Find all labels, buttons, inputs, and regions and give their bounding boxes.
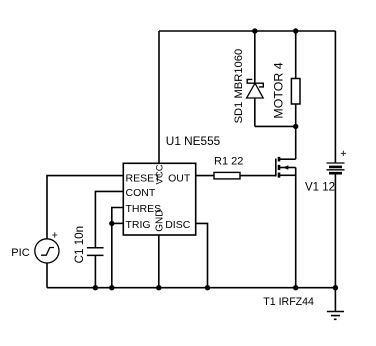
svg-text:SD1 MBR1060: SD1 MBR1060 [233, 49, 245, 124]
wire diode bottom link [255, 125, 296, 127]
wire disc down [196, 223, 208, 287]
svg-text:GND: GND [155, 210, 166, 232]
svg-text:VCC: VCC [155, 164, 166, 184]
junction rail disc [205, 285, 210, 290]
svg-text:MOTOR 4: MOTOR 4 [272, 62, 286, 118]
svg-text:TRIG: TRIG [126, 219, 151, 231]
op-amp U1 NE555 body [123, 163, 195, 235]
transistor T1 source lead [280, 174, 296, 176]
wire motor bottom [295, 104, 297, 126]
junction rail source [293, 285, 298, 290]
svg-text:PIC: PIC [11, 247, 29, 259]
capacitor C1 plates [87, 248, 104, 256]
wire thres down [112, 208, 124, 288]
wire battery bottom [334, 174, 336, 288]
transistor T1 channel bars [278, 157, 281, 178]
svg-text:T1 IRFZ44: T1 IRFZ44 [263, 296, 314, 308]
wire cont to cap [95, 191, 123, 247]
svg-text:DISC: DISC [165, 219, 191, 231]
wire R1 to gate [240, 175, 276, 177]
junction rail gnd [156, 285, 161, 290]
wire reset to source [47, 176, 123, 239]
transistor T1 body lead [280, 167, 296, 169]
wire battery top [334, 31, 336, 163]
wire top rail [159, 30, 335, 32]
wire out to R1 [196, 175, 214, 177]
diode SD1 schottky bar [247, 79, 263, 87]
junction top rail diode [252, 28, 257, 33]
transistor T1 drain lead [280, 158, 296, 160]
wire diode branch vertical [254, 31, 256, 126]
wire drain riser [295, 126, 297, 159]
svg-text:V1 12: V1 12 [305, 181, 335, 193]
junction rail battery [333, 285, 338, 290]
junction thres trig [109, 221, 114, 226]
junction motor bottom [293, 124, 298, 129]
svg-text:C1 10n: C1 10n [73, 226, 86, 263]
wire source bottom [46, 263, 48, 288]
wire gnd drop [158, 235, 160, 288]
svg-text:OUT: OUT [168, 172, 191, 184]
wire mosfet source down [295, 168, 297, 288]
source PIC waveform [41, 248, 54, 256]
wire bottom rail [47, 287, 335, 289]
transistor T1 gate bar [275, 159, 277, 177]
transistor T1 arrow [283, 165, 288, 170]
ground symbol [327, 312, 344, 320]
battery V1 plus [341, 151, 346, 156]
battery V1 thick plates [329, 167, 342, 173]
source PIC plus [52, 232, 57, 237]
svg-text:R1 22: R1 22 [214, 156, 243, 168]
source PIC circle [35, 239, 59, 263]
svg-text:CONT: CONT [126, 187, 156, 199]
wire ground stub [334, 288, 336, 312]
junction top rail motor [293, 28, 298, 33]
battery V1 plates [327, 163, 345, 173]
diode SD1 triangle [247, 83, 264, 98]
svg-text:U1 NE555: U1 NE555 [166, 134, 221, 148]
junction rail C1 [93, 285, 98, 290]
wire trig [112, 222, 124, 224]
wire VCC riser [158, 31, 160, 163]
wire motor top [295, 31, 297, 79]
wire cap bottom [94, 255, 96, 287]
resistor R1 body [214, 172, 240, 179]
junction rail trig [109, 285, 114, 290]
motor M body [291, 79, 300, 105]
